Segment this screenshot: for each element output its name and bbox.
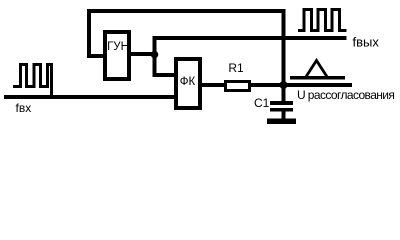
- wire: C1 bottom stub: [282, 111, 286, 119]
- svg-text:C1: C1: [254, 96, 270, 110]
- svg-text:fвых: fвых: [353, 35, 380, 50]
- capacitor C1 top plate: [270, 101, 293, 105]
- svg-text:ФК: ФК: [180, 76, 196, 88]
- wire: ФК output: [200, 83, 226, 87]
- resistor R1: [226, 82, 250, 91]
- wire: R1 to node U: [249, 83, 352, 87]
- junction node A (VCO output): [151, 51, 159, 59]
- svg-text:fвх: fвх: [16, 101, 32, 115]
- block U1 ГУН (VCO): [105, 32, 129, 79]
- wire: right feedback vertical (node U up to top line): [282, 9, 286, 101]
- waveform: fвых output pulses: [298, 10, 347, 31]
- waveform: error voltage baseline: [290, 76, 345, 80]
- ground bar: [267, 119, 296, 125]
- svg-text:ГУН: ГУН: [107, 41, 129, 53]
- wire: left feedback vertical: [87, 9, 91, 58]
- wire: VCO control input: [87, 54, 105, 58]
- wire: upper input of ФК: [153, 73, 176, 77]
- waveform: error voltage triangle: [306, 61, 328, 78]
- svg-text:U рассогласования: U рассогласования: [297, 88, 394, 102]
- wire: vertical from node A down to phase comparator: [153, 38, 157, 75]
- wire: top feedback horizontal (U to VCO): [87, 9, 286, 13]
- wire: fвх input line: [4, 95, 174, 99]
- waveform: fвх input pulses: [13, 65, 52, 97]
- junction node U: [280, 81, 288, 89]
- svg-text:R1: R1: [228, 61, 244, 75]
- block U2 ФК (phase comparator): [176, 59, 200, 108]
- wire: fвых output line: [153, 36, 347, 40]
- capacitor C1 bottom plate: [270, 108, 293, 112]
- wire: VCO output: [129, 52, 155, 56]
